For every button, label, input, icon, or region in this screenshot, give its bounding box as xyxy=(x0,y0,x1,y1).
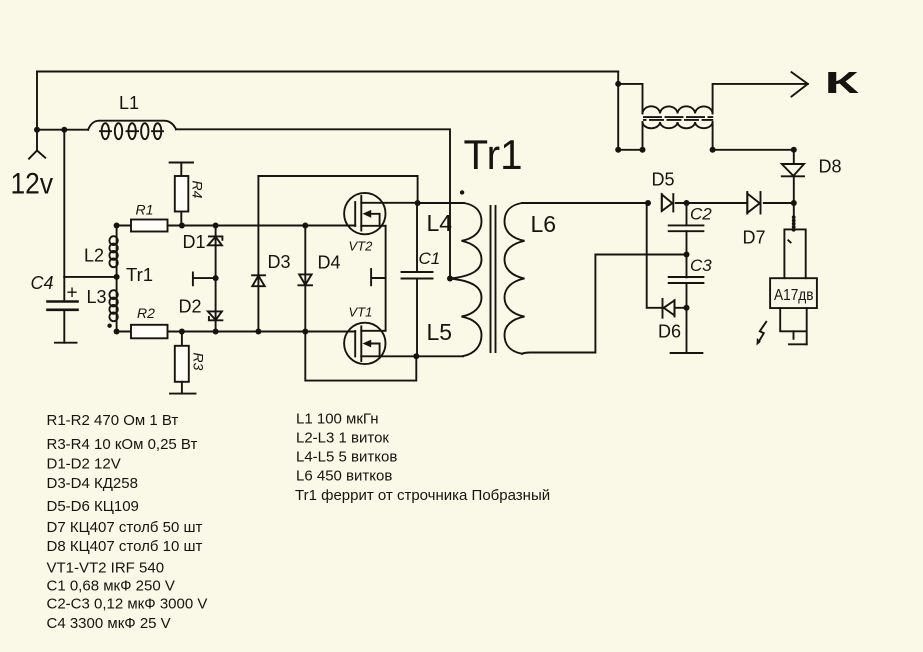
wire D1 D2 branch xyxy=(215,226,217,332)
wire bottom box xyxy=(305,332,416,381)
transformer core xyxy=(491,206,496,352)
output transformer core xyxy=(644,116,712,118)
node D1 D2 mid xyxy=(213,275,219,281)
svg-text:D3: D3 xyxy=(268,252,291,272)
node Z xyxy=(791,200,797,206)
inductor L1 xyxy=(88,121,176,140)
transistor VT1 xyxy=(344,323,463,364)
node lower left xyxy=(615,147,621,153)
wire R1 gate row xyxy=(117,225,356,227)
legend left column xyxy=(47,412,208,632)
wire L1 to transformer center tap xyxy=(176,129,450,278)
svg-text:VT2: VT2 xyxy=(349,239,374,254)
winding L5 xyxy=(450,279,482,357)
resistor R3 xyxy=(170,332,196,394)
svg-text:D5: D5 xyxy=(652,169,675,189)
wire top rail xyxy=(37,71,618,73)
svg-text:L3: L3 xyxy=(87,287,107,307)
node R1 right R4 xyxy=(179,223,185,229)
wire D5 to D7 xyxy=(676,202,747,204)
resistor R2 xyxy=(131,325,168,339)
wire R2 row xyxy=(117,331,356,333)
node D8 top xyxy=(791,147,797,153)
wire D3 branch xyxy=(257,176,259,332)
wire 12v feed vertical xyxy=(36,72,38,130)
svg-text:R1: R1 xyxy=(136,202,154,218)
winding L4 xyxy=(450,203,482,279)
svg-text:D1-D2 12V: D1-D2 12V xyxy=(47,455,121,472)
svg-text:R4: R4 xyxy=(190,181,206,199)
winding L2 xyxy=(109,236,117,267)
wire upper winding right lead to arrow xyxy=(713,84,808,113)
diode D8 xyxy=(782,150,804,203)
node L3 polarity dot xyxy=(107,324,111,328)
wire D7 to node Z xyxy=(764,202,794,204)
node junction left rail xyxy=(61,127,67,133)
node C2 C3 mid xyxy=(684,252,690,258)
svg-text:C3: C3 xyxy=(690,256,712,275)
legend right column xyxy=(295,410,550,504)
wire left rail down xyxy=(63,130,65,277)
svg-text:VT1: VT1 xyxy=(349,305,373,320)
diode D1 zener xyxy=(208,236,223,245)
svg-text:К: К xyxy=(825,65,859,100)
output transformer lower winding xyxy=(643,122,713,128)
node D3 bottom xyxy=(255,329,261,335)
node D1 top xyxy=(213,223,219,229)
svg-text:L6 450 витков: L6 450 витков xyxy=(296,467,392,484)
wire lower winding leads xyxy=(643,123,713,150)
diode D7 xyxy=(747,192,760,214)
node C2 top xyxy=(684,200,690,206)
wire upper winding left lead xyxy=(618,84,642,113)
node D4 bottom xyxy=(302,329,308,335)
node 12v input junction xyxy=(34,127,40,133)
svg-text:C1 0,68 мкФ 250 V: C1 0,68 мкФ 250 V xyxy=(47,578,175,595)
node R2 right R3 xyxy=(179,329,185,335)
svg-text:Tr1 феррит от строчника Побраз: Tr1 феррит от строчника Побразный xyxy=(295,487,550,504)
capacitor C2 xyxy=(669,203,704,255)
svg-text:+: + xyxy=(67,283,78,304)
svg-text:L4: L4 xyxy=(427,210,453,236)
diode D5 xyxy=(662,194,674,211)
diode D6 xyxy=(663,299,675,318)
svg-text:D5-D6 КЦ109: D5-D6 КЦ109 xyxy=(47,498,139,515)
svg-text:L1 100 мкГн: L1 100 мкГн xyxy=(296,410,379,427)
gate stub right xyxy=(371,269,386,285)
node lower winding left xyxy=(640,147,646,153)
svg-text:D2: D2 xyxy=(179,297,202,317)
svg-text:D8 КЦ407 столб 10 шт: D8 КЦ407 столб 10 шт xyxy=(47,538,203,555)
svg-text:R3: R3 xyxy=(191,353,207,371)
node R2 left xyxy=(114,329,120,335)
capacitor C1 xyxy=(402,203,433,356)
svg-text:D7: D7 xyxy=(743,227,766,247)
node upper tap xyxy=(615,81,621,87)
svg-text:L5: L5 xyxy=(427,319,453,345)
capacitor C3 xyxy=(669,255,704,308)
output transformer upper winding xyxy=(643,106,713,113)
winding L2 L3 vertical wire xyxy=(116,226,118,332)
node center tap row xyxy=(114,274,120,280)
wire top box xyxy=(258,176,417,203)
wire down to D6 row xyxy=(647,203,663,308)
wire lower row xyxy=(618,149,794,151)
svg-text:D7 КЦ407 столб 50 шт: D7 КЦ407 столб 50 шт xyxy=(47,519,203,536)
discharge arrow xyxy=(757,322,767,346)
svg-text:R3-R4 10 кОм 0,25 Вт: R3-R4 10 кОм 0,25 Вт xyxy=(47,436,198,453)
svg-text:C4: C4 xyxy=(31,273,54,293)
svg-text:C2: C2 xyxy=(690,204,712,223)
svg-text:D1: D1 xyxy=(183,232,206,252)
svg-text:L2-L3 1 виток: L2-L3 1 виток xyxy=(296,429,389,446)
wire center tap row xyxy=(64,276,116,278)
svg-text:А17дв: А17дв xyxy=(774,287,814,304)
svg-text:D8: D8 xyxy=(819,157,842,177)
svg-text:VT1-VT2 IRF 540: VT1-VT2 IRF 540 xyxy=(47,560,165,577)
svg-text:L2: L2 xyxy=(84,246,104,266)
resistor R1 xyxy=(131,220,168,232)
wire VT2 source to VT1 drain xyxy=(385,226,387,331)
12v source arrow xyxy=(29,130,45,159)
winding L6 xyxy=(505,203,525,354)
svg-text:C4 3300 мкФ 25 V: C4 3300 мкФ 25 V xyxy=(47,615,171,632)
node L6 top junction xyxy=(645,200,651,206)
wire L6 bottom lead xyxy=(522,255,687,354)
svg-text:Tr1: Tr1 xyxy=(126,264,153,285)
transistor VT2 xyxy=(344,193,418,234)
diode D4 xyxy=(298,274,312,285)
wire below D6 xyxy=(671,308,703,353)
resistor R4 xyxy=(170,163,193,226)
node D4 top xyxy=(302,223,308,229)
wire D4 branch xyxy=(304,226,306,332)
node drain row C1 top xyxy=(415,200,421,206)
svg-text:C2-C3 0,12 мкФ 3000 V: C2-C3 0,12 мкФ 3000 V xyxy=(47,595,208,612)
svg-text:L4-L5 5 витков: L4-L5 5 витков xyxy=(296,448,397,465)
node R1 left xyxy=(114,223,120,229)
diode D2 zener xyxy=(208,311,223,320)
svg-text:D6: D6 xyxy=(658,322,681,342)
svg-text:D3-D4 КД258: D3-D4 КД258 xyxy=(47,475,138,492)
svg-text:R1-R2 470 Ом 1 Вт: R1-R2 470 Ом 1 Вт xyxy=(47,412,179,429)
node C3 bottom xyxy=(684,305,690,311)
svg-text:Tr1: Tr1 xyxy=(464,131,523,178)
wire drain row to winding xyxy=(418,202,464,204)
svg-text:R2: R2 xyxy=(137,305,155,321)
svg-text:C1: C1 xyxy=(419,249,441,268)
wire L6 top lead xyxy=(522,202,648,204)
output arrow head xyxy=(792,72,808,96)
svg-text:D4: D4 xyxy=(318,253,341,273)
node VT1 source C1 xyxy=(413,353,419,359)
output transformer left vertical xyxy=(617,72,619,150)
gate stub left xyxy=(193,272,216,285)
node lower winding right xyxy=(710,147,716,153)
dotted connector xyxy=(792,215,796,231)
svg-text:L6: L6 xyxy=(531,211,557,237)
svg-text:L1: L1 xyxy=(119,93,139,113)
svg-text:12v: 12v xyxy=(11,168,54,201)
capacitor C4 xyxy=(48,277,78,343)
diode D3 xyxy=(252,275,265,286)
wire 12v row to L1 xyxy=(37,129,88,131)
node winding center tap xyxy=(447,276,453,282)
node D2 bottom xyxy=(213,329,219,335)
wire node Z down xyxy=(793,203,795,216)
node L4 polarity dot xyxy=(460,190,464,194)
winding L3 xyxy=(109,290,117,321)
lamp A17 block xyxy=(770,229,817,344)
